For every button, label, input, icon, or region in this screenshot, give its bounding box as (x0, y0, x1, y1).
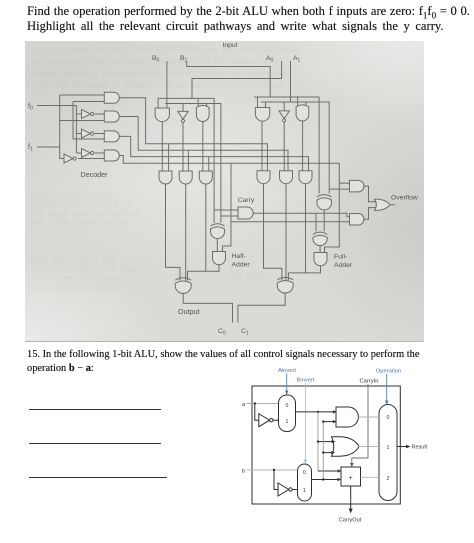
svg-text:C1: C1 (241, 328, 249, 337)
wire a (247, 403, 279, 405)
svg-text:f0: f0 (28, 103, 33, 112)
wire B and stub (157, 98, 159, 108)
svg-text:+: + (349, 475, 353, 482)
or gate B (196, 105, 209, 121)
svg-text:Adder: Adder (232, 262, 251, 269)
wire tier2 B g2 out (185, 184, 187, 281)
adder box (341, 467, 361, 486)
svg-text:CarryIn: CarryIn (359, 379, 378, 385)
wire A and stubs (258, 97, 266, 108)
wire gate1 in2 (73, 101, 104, 103)
wire B or out (202, 122, 204, 171)
wire L3 branch to B gate (208, 157, 210, 171)
svg-text:1: 1 (286, 419, 289, 425)
svg-text:A0: A0 (266, 55, 274, 64)
wire mux b out (312, 479, 342, 481)
wire decoder out3 / select line L3 (119, 136, 308, 170)
wire A0 across to B block (192, 61, 282, 98)
wire adder out to mux (361, 476, 380, 478)
svg-text:Full-: Full- (334, 254, 347, 261)
wire carry out to overflow and (253, 213, 349, 216)
and gate carry (238, 207, 253, 219)
wire decoder out1 / select line L1 (119, 98, 267, 171)
wire decoder rail 3 (75, 106, 77, 154)
wire and out to mux (359, 416, 380, 418)
or gate overflow (375, 199, 390, 210)
wire A inv out (283, 122, 285, 171)
answer blank line 3 (29, 477, 167, 478)
wire HA out (188, 265, 220, 281)
wire carryout (350, 486, 352, 510)
and gate B (155, 108, 169, 122)
and gate overflow top (350, 180, 364, 192)
wire carry gate in1 (214, 209, 238, 211)
svg-text:Half-: Half- (232, 253, 246, 260)
wire A and out (261, 121, 263, 171)
wire B or stubs (198, 98, 207, 107)
svg-text:0: 0 (286, 403, 289, 409)
wire B bus2 (165, 104, 221, 223)
inverter A (279, 111, 289, 119)
svg-text:CarryOut: CarryOut (339, 518, 362, 524)
svg-text:2: 2 (387, 476, 390, 482)
xor gate output B (175, 278, 191, 280)
wire tier2 B g1 out (166, 184, 181, 281)
and gate alu (336, 407, 358, 427)
wire output B to C0 (183, 293, 232, 323)
wire B1 across to A block (187, 61, 271, 97)
wire output A to C1 (238, 292, 285, 322)
wire mux a out (296, 411, 337, 413)
wire A inv stub (283, 102, 285, 111)
svg-text:b: b (242, 469, 245, 475)
and gate decoder 2 (104, 111, 119, 122)
and gate decoder 3 (104, 131, 119, 142)
wire carry branch to xor2 (315, 213, 317, 231)
svg-text:1: 1 (303, 488, 306, 494)
svg-text:0: 0 (387, 415, 390, 421)
wire B inv stub (182, 104, 184, 112)
wire and in2 (323, 421, 336, 423)
and gate A (255, 108, 269, 122)
wire Binvert line (304, 383, 306, 461)
and gate B2 tier2 g1 (159, 171, 172, 184)
inverter decoder 3 (76, 149, 104, 158)
svg-text:Output: Output (178, 307, 200, 316)
scanned gray figure background (25, 41, 424, 342)
or gate A (296, 105, 309, 121)
inverter B (178, 111, 188, 119)
wire f0 (37, 105, 76, 107)
question 15 text (27, 349, 419, 360)
inverter b (278, 483, 289, 496)
wire gate1 in1 (60, 94, 105, 96)
wire Operation arrow (386, 374, 388, 402)
wire or in2 (323, 452, 333, 454)
svg-text:Overflow: Overflow (391, 195, 418, 202)
svg-text:Decoder: Decoder (80, 170, 108, 179)
svg-text:Operation: Operation (376, 369, 401, 375)
wire decoder rail 1 (60, 95, 64, 159)
wire A1 down (290, 61, 292, 102)
and gate A2 tier2 g1 (257, 171, 270, 184)
wire and-t out (364, 186, 376, 202)
wire b branch up (322, 422, 324, 480)
svg-text:1: 1 (387, 445, 390, 451)
wire FA out (288, 266, 320, 281)
answer blank line 1 (29, 409, 161, 410)
wire CarryIn (352, 384, 368, 464)
and gate decoder 4 (104, 150, 119, 161)
or gate alu (332, 437, 360, 456)
wire b (247, 469, 298, 471)
wire decoder out2 / select line L2 (119, 117, 288, 171)
wire Ainvert arrow (286, 374, 288, 392)
wire A or stubs (298, 97, 307, 107)
wire decoder rail 2 (72, 102, 74, 140)
inverter decoder 2 (76, 129, 104, 138)
svg-text:a: a (242, 402, 246, 408)
xor gate carry B (211, 224, 225, 226)
and gate B2 tier2 g3 (199, 171, 212, 184)
and gate A2 tier2 g3 (299, 171, 312, 184)
wire b to inverter (274, 470, 278, 490)
wire gate3 in2 (73, 138, 104, 140)
wire and-b out (364, 208, 376, 220)
xor gate overflow 1 (317, 195, 332, 197)
wire B bus1 (158, 98, 215, 222)
inverter a (259, 414, 270, 427)
wire or out to mux (359, 446, 380, 448)
and gate A2 tier2 g2 (280, 171, 293, 184)
svg-text:Binvert: Binvert (296, 378, 314, 384)
svg-text:Ainvert: Ainvert (278, 368, 296, 374)
wire result out (397, 446, 407, 448)
wire B and out (161, 122, 163, 171)
svg-text:f1: f1 (28, 144, 33, 153)
wire A or out (302, 121, 304, 171)
svg-text:Adder: Adder (334, 262, 353, 269)
and gate overflow bottom (350, 214, 364, 226)
wire a to inverter (255, 404, 259, 421)
wire tier2 A g1 out (264, 184, 282, 281)
wire carry gate in2 (221, 215, 238, 217)
wire xor1 out (323, 210, 325, 231)
outer box (252, 386, 400, 504)
inverter decoder 4 (64, 154, 104, 163)
wire a branch down (317, 412, 319, 471)
wire A bus2 branch to and-t (329, 188, 349, 190)
svg-text:Carry: Carry (238, 197, 255, 204)
svg-text:C0: C0 (218, 328, 226, 337)
wire tier2 B g3 out (205, 184, 207, 272)
and gate full adder (314, 253, 327, 266)
wire or in1 (318, 441, 334, 443)
xor gate output A (277, 277, 293, 279)
question text line 1 (27, 4, 470, 21)
wire overflow out (390, 204, 396, 206)
wire xor carry out to HA (216, 239, 218, 252)
wire B0 down (166, 61, 168, 108)
wire A bus2 (261, 102, 329, 194)
answer blank line 2 (29, 443, 161, 444)
mux a (279, 395, 296, 432)
wire tier2 A g3 out (305, 184, 307, 274)
arrowheads gate inputs (333, 410, 337, 423)
wire L1 branch to B gate (168, 144, 170, 171)
wire f1 (37, 146, 60, 148)
inverter decoder 1 (76, 110, 104, 119)
wire inverter b out (292, 489, 297, 491)
wire B inv out (182, 122, 184, 171)
svg-text:B0: B0 (152, 55, 160, 64)
and gate half adder (213, 252, 226, 265)
wire inverter a out (273, 419, 279, 421)
wire xor2 out to FA (319, 245, 321, 253)
svg-text:A1: A1 (293, 55, 301, 64)
question text line 2 (27, 19, 444, 34)
wire L2 branch to B gate (187, 150, 189, 171)
svg-text:Input: Input (222, 42, 237, 49)
svg-text:0: 0 (303, 470, 306, 476)
and gate decoder 1 (104, 92, 119, 103)
svg-text:Result: Result (412, 445, 428, 451)
mux b (298, 464, 312, 501)
wire decoder out4 / select line L4 (119, 156, 349, 253)
wire gate2 in2 (60, 120, 105, 122)
mux result (379, 405, 397, 501)
and gate B2 tier2 g2 (179, 171, 192, 184)
wire A bus1 (254, 97, 319, 194)
wire L4 branch down left (223, 163, 350, 251)
xor gate overflow 2 (313, 232, 327, 234)
wire tier2 A g2 out (285, 184, 287, 281)
